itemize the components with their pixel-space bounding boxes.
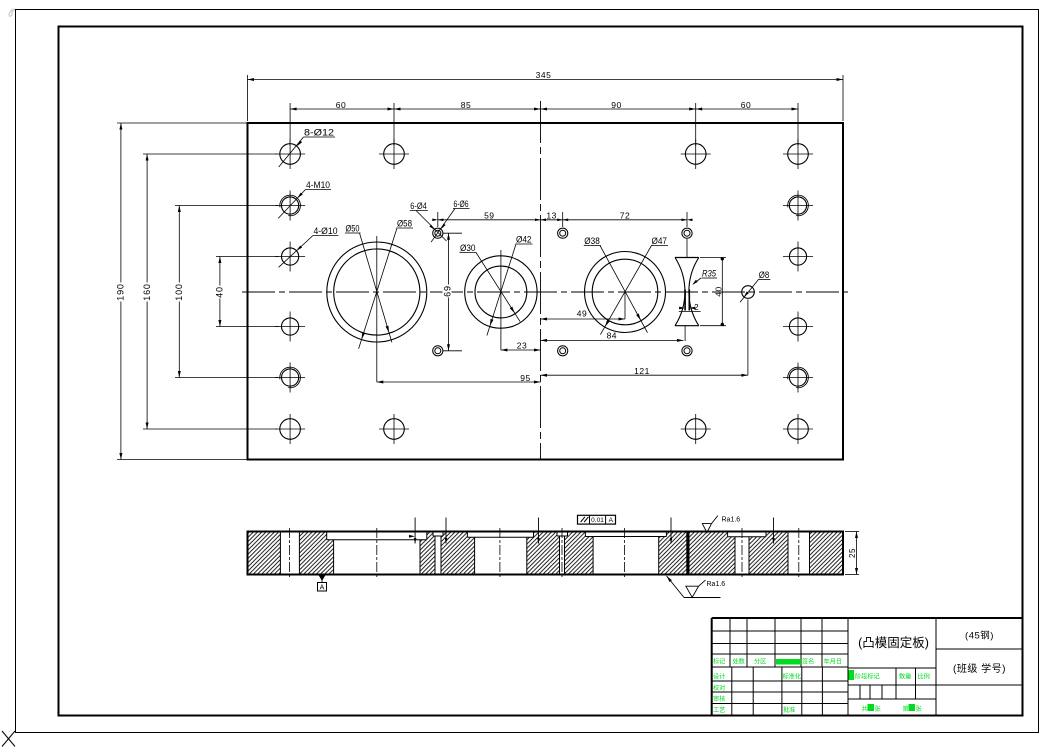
dim 40 vertical bbox=[219, 257, 221, 327]
dim 121 bbox=[541, 374, 748, 376]
svg-text:59: 59 bbox=[484, 210, 494, 220]
svg-text:标准化: 标准化 bbox=[783, 673, 802, 681]
svg-text:Ø58: Ø58 bbox=[397, 219, 412, 229]
svg-text:Ra1.6: Ra1.6 bbox=[707, 581, 726, 588]
svg-text:2: 2 bbox=[694, 303, 699, 312]
4-x dia10 holes bbox=[275, 256, 305, 258]
svg-text:校对: 校对 bbox=[713, 684, 725, 692]
svg-text:23: 23 bbox=[517, 340, 527, 350]
datum A flag bbox=[319, 575, 326, 581]
svg-text:审核: 审核 bbox=[713, 695, 725, 703]
svg-text:90: 90 bbox=[611, 100, 621, 110]
hourglass slot R35 bbox=[675, 257, 699, 259]
dim 69 vertical small holes bbox=[448, 233, 450, 351]
svg-text:40: 40 bbox=[714, 286, 724, 296]
svg-text:第: 第 bbox=[903, 705, 909, 713]
svg-text:85: 85 bbox=[461, 100, 471, 110]
svg-text:Ø38: Ø38 bbox=[584, 236, 600, 246]
svg-text:R35: R35 bbox=[702, 269, 717, 279]
corner pencil smudge bbox=[9, 9, 15, 16]
dim 40 hourglass vertical bbox=[721, 258, 723, 326]
title block frame bbox=[712, 617, 1023, 619]
svg-text:40: 40 bbox=[215, 286, 225, 298]
svg-text:数量: 数量 bbox=[899, 673, 911, 681]
6-x dia4/dia6 small holes bbox=[433, 228, 443, 238]
section hourglass waist bbox=[686, 533, 689, 574]
svg-text:6-Ø4: 6-Ø4 bbox=[410, 201, 427, 211]
hole dia30/42 bbox=[500, 250, 502, 350]
svg-text:A: A bbox=[320, 585, 325, 592]
svg-text:72: 72 bbox=[620, 210, 630, 220]
dim 23 bbox=[501, 349, 541, 351]
dim 190 vertical bbox=[120, 123, 122, 460]
vertical centerline bbox=[540, 101, 542, 459]
section body with hatch bbox=[248, 531, 844, 575]
svg-text:100: 100 bbox=[174, 283, 184, 300]
svg-text:4-Ø10: 4-Ø10 bbox=[314, 226, 338, 236]
horizontal centerline bbox=[242, 291, 848, 293]
svg-text:Ra1.6: Ra1.6 bbox=[722, 517, 741, 524]
svg-text:批准: 批准 bbox=[783, 706, 795, 714]
dim 2 waist bbox=[679, 311, 701, 313]
dim 100 vertical bbox=[178, 206, 180, 378]
svg-text:345: 345 bbox=[536, 70, 552, 80]
svg-text:60: 60 bbox=[336, 100, 346, 110]
counterbore depth ticks bbox=[414, 518, 416, 544]
svg-text:0.01: 0.01 bbox=[591, 517, 604, 524]
section centerlines bbox=[289, 528, 291, 578]
dim chain 59 13 72 bbox=[438, 219, 687, 221]
svg-text:69: 69 bbox=[443, 285, 453, 297]
section hole openings bbox=[280, 533, 299, 574]
svg-text:标记: 标记 bbox=[713, 658, 725, 666]
section outline bbox=[248, 531, 844, 533]
svg-text:190: 190 bbox=[116, 283, 126, 300]
svg-text:60: 60 bbox=[741, 100, 751, 110]
svg-text:13: 13 bbox=[546, 210, 556, 220]
svg-text:Ø8: Ø8 bbox=[759, 270, 770, 280]
hole dia38/47 bbox=[624, 292, 626, 319]
svg-text:设计: 设计 bbox=[713, 673, 725, 681]
parallelism tolerance frame bbox=[578, 515, 616, 524]
svg-text:8-Ø12: 8-Ø12 bbox=[304, 128, 334, 138]
corner X cursor mark bbox=[2, 731, 15, 747]
svg-text:Ø50: Ø50 bbox=[346, 224, 360, 234]
svg-text:84: 84 bbox=[607, 331, 617, 341]
svg-text:张: 张 bbox=[916, 705, 923, 713]
hourglass centerline bbox=[686, 239, 688, 258]
svg-text:A: A bbox=[609, 517, 614, 524]
dim 95 bbox=[377, 381, 541, 383]
dia8 hole bbox=[742, 286, 755, 299]
hourglass waist bars bbox=[684, 290, 686, 311]
svg-text:121: 121 bbox=[634, 366, 650, 376]
svg-text:Ø30: Ø30 bbox=[460, 243, 476, 253]
svg-text:95: 95 bbox=[520, 373, 530, 383]
svg-text:阶段标记: 阶段标记 bbox=[855, 673, 880, 681]
svg-text:160: 160 bbox=[142, 283, 152, 300]
section counterbore steps bbox=[326, 533, 328, 540]
svg-text:(45钢): (45钢) bbox=[965, 630, 994, 642]
svg-text:共: 共 bbox=[862, 705, 868, 713]
svg-text:25: 25 bbox=[848, 548, 857, 558]
surface finish Ra1.6 top bbox=[702, 516, 718, 533]
plate outline bbox=[248, 123, 844, 460]
title block grid bbox=[712, 630, 848, 632]
dim 84 bbox=[541, 339, 684, 341]
svg-text:6-Ø6: 6-Ø6 bbox=[454, 199, 469, 209]
dim 160 vertical bbox=[146, 154, 148, 429]
svg-text:Ø47: Ø47 bbox=[652, 236, 668, 246]
dim 49 bbox=[541, 318, 626, 320]
svg-text:分区: 分区 bbox=[754, 658, 766, 666]
dim chain 60 85 90 60 bbox=[290, 108, 798, 110]
svg-text:4-M10: 4-M10 bbox=[306, 180, 330, 190]
svg-text:签名: 签名 bbox=[802, 658, 814, 666]
svg-text:49: 49 bbox=[577, 309, 587, 319]
dim 25 thickness bbox=[845, 531, 859, 533]
dim 345 overall bbox=[248, 79, 844, 81]
8-x dia12 bolt holes bbox=[275, 153, 305, 155]
surface finish Ra1.6 bottom bbox=[667, 576, 672, 582]
svg-text:工艺: 工艺 bbox=[713, 706, 725, 714]
4-x M10 tapped holes bbox=[275, 205, 305, 207]
svg-text:张: 张 bbox=[875, 705, 882, 713]
svg-text:处数: 处数 bbox=[733, 658, 746, 666]
svg-text:(凸模固定板): (凸模固定板) bbox=[858, 635, 929, 650]
large hole dia50/58 bbox=[376, 236, 378, 382]
svg-text:年月日: 年月日 bbox=[824, 658, 843, 666]
svg-text:比例: 比例 bbox=[918, 673, 930, 681]
svg-text:Ø42: Ø42 bbox=[516, 235, 532, 245]
svg-text:(班级 学号): (班级 学号) bbox=[953, 662, 1006, 675]
